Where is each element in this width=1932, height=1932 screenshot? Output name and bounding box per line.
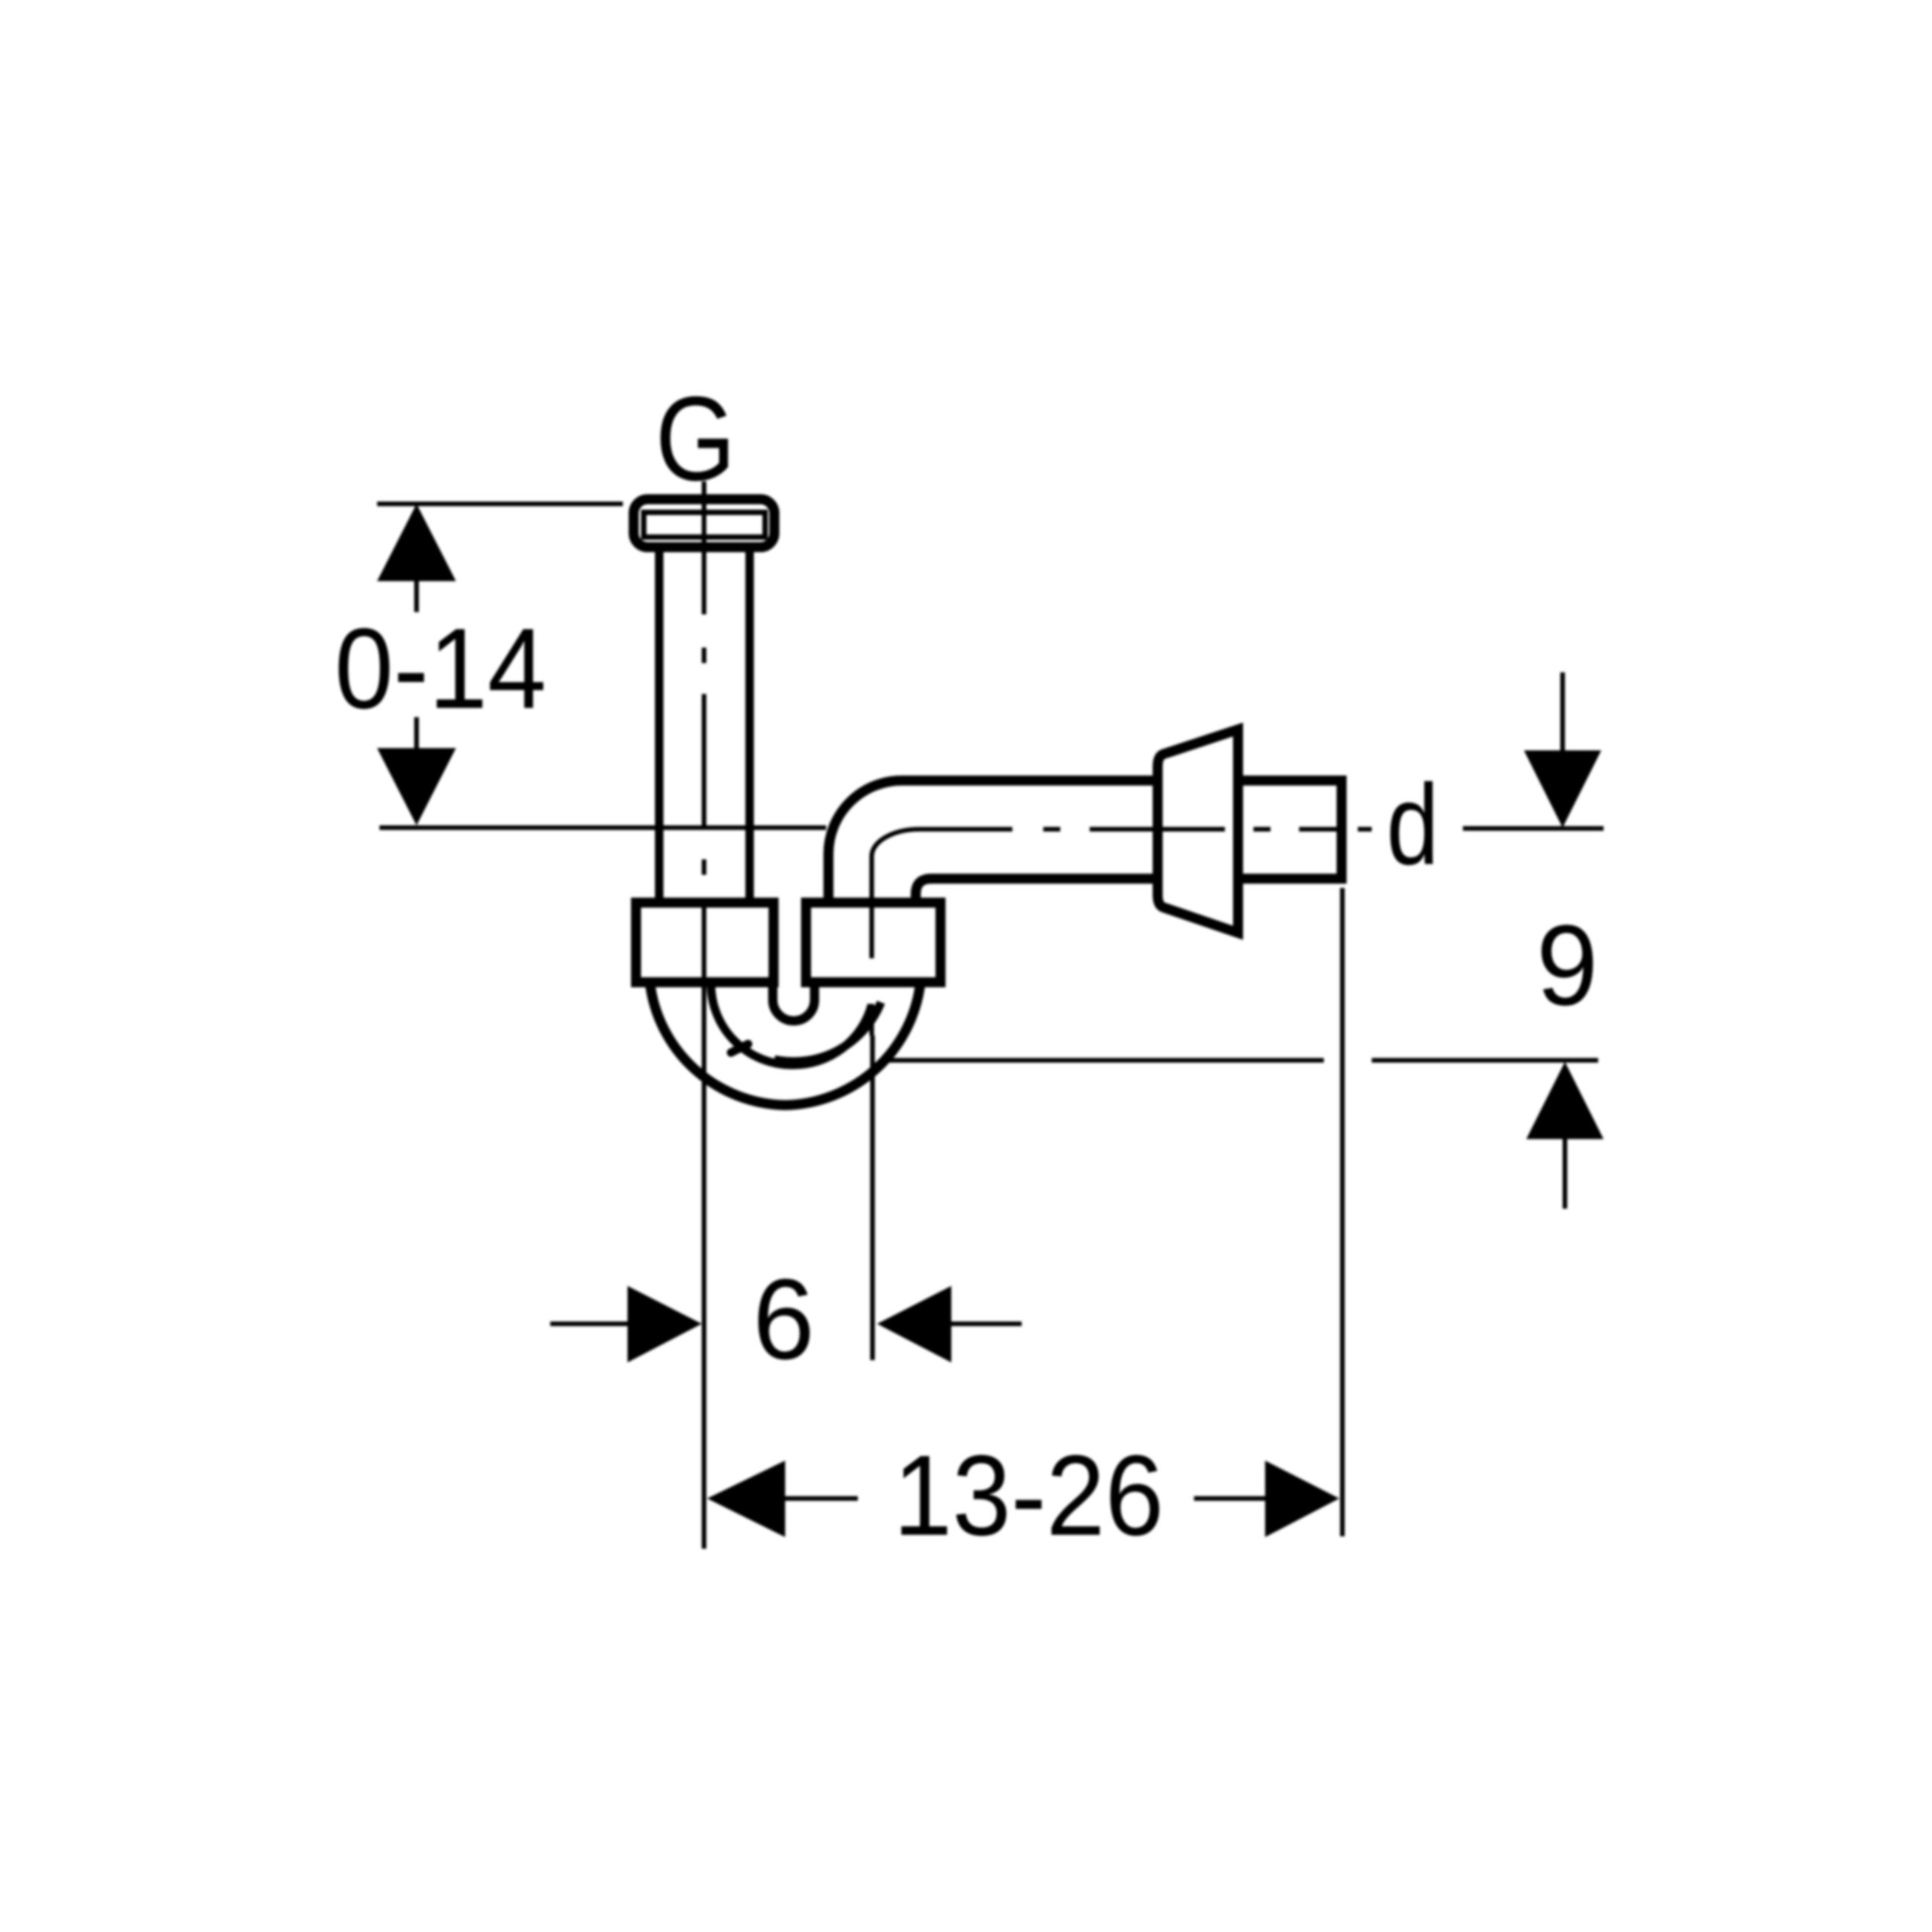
dimension 13-26 right arrow	[1194, 1496, 1267, 1501]
svg-text:0-14: 0-14	[335, 605, 546, 733]
trap inner tick	[731, 1044, 748, 1053]
extension line at outlet axis level (0-14 lower)	[379, 825, 826, 830]
outlet centerline	[920, 827, 1372, 832]
dimension 6 right arrow	[877, 1286, 951, 1362]
dimension 9 up arrow	[1526, 1062, 1604, 1139]
trap left nut	[636, 903, 774, 982]
extension line from inlet axis down to 13-26	[702, 1028, 706, 1549]
dimension 0-14 up arrow	[377, 504, 456, 581]
svg-text:G: G	[655, 372, 736, 505]
elbow inner wall (right+bottom)	[916, 879, 1158, 903]
extension line top (0-14 upper)	[377, 502, 623, 506]
outlet stub	[1238, 781, 1342, 879]
wall cone flange	[1158, 730, 1238, 933]
trap water-seal arc	[774, 1002, 881, 1062]
svg-text:9: 9	[1536, 902, 1598, 1029]
elbow down-leg centerline	[869, 856, 874, 1036]
elbow outer wall (left+top)	[828, 781, 1158, 903]
extension line right of d (9-dim upper)	[1463, 826, 1604, 831]
dimension 9 down arrow	[1560, 672, 1565, 752]
dimension 0-14 down arrow	[414, 717, 419, 748]
inlet pipe walls	[655, 547, 664, 903]
dimension 6 left arrow	[550, 1321, 630, 1326]
inlet pipe nut (top flange)	[634, 499, 774, 547]
trap U-bend inner wall	[711, 982, 872, 1065]
extension line from outlet end down to 13-26	[1340, 888, 1345, 1536]
svg-text:6: 6	[753, 1256, 815, 1383]
elbow centerline bend	[872, 829, 920, 856]
9-dim lower extension line	[885, 1058, 1324, 1063]
dimension 13-26 left arrow	[707, 1461, 785, 1537]
svg-text:13-26: 13-26	[893, 1432, 1164, 1560]
trap U-bend outer wall	[650, 983, 920, 1105]
trap right nut	[806, 903, 940, 982]
svg-text:d: d	[1386, 761, 1439, 889]
extension line from down-leg axis to 6-dim	[870, 1036, 875, 1360]
inlet pipe centerline	[702, 481, 706, 1028]
trap partition bump	[773, 982, 815, 1021]
